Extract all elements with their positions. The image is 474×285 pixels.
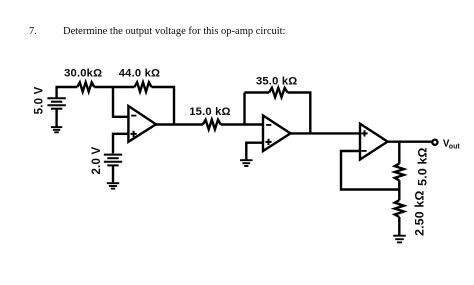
- svg-text:44.0 kΩ: 44.0 kΩ: [119, 68, 160, 80]
- svg-text:5.0 V: 5.0 V: [33, 86, 45, 114]
- wire U2 output to U3 non-inverting input: [291, 132, 361, 134]
- U2 non-inverting pin plus sign: [265, 139, 271, 145]
- op-amp U2 triangle: [263, 116, 291, 152]
- battery V2 2.0V plates: [104, 155, 122, 166]
- op-amp U1 triangle: [128, 106, 156, 142]
- resistor R6 2.50k zigzag: [395, 200, 404, 217]
- wire U1 non-inverting input to battery V2: [113, 134, 128, 154]
- wire R3 to U2 inverting input through node B: [221, 123, 263, 125]
- svg-text:2.50 kΩ: 2.50 kΩ: [413, 190, 427, 235]
- wire node A down to U1 inverting input: [113, 87, 128, 117]
- U3 non-inverting pin plus sign: [361, 130, 367, 136]
- battery V1 5.0V plates: [47, 98, 65, 109]
- wire battery V1 bottom to ground: [55, 109, 57, 127]
- resistor R4 35.0k zigzag: [269, 88, 287, 97]
- resistor R3 15.0k zigzag: [203, 120, 221, 130]
- wire node B up to 35k rail: [243, 93, 245, 125]
- U3 inverting pin minus sign: [361, 150, 366, 152]
- wire R1 to R2 through node A: [94, 86, 134, 88]
- svg-text:Determine the output voltage f: Determine the output voltage for this op…: [63, 26, 286, 37]
- wire R5 to R6 through tap node: [398, 180, 400, 200]
- Vout open terminal circle: [432, 140, 437, 145]
- wire R2 right to feedback corner and drop to op-amp U1 output: [152, 87, 175, 125]
- wire 35k rail left segment: [245, 91, 270, 93]
- wire U3 output node down to R5: [398, 142, 400, 164]
- svg-text:7.: 7.: [29, 26, 37, 37]
- ground G1 under battery V1: [51, 127, 62, 132]
- ground G4 under R6: [393, 236, 406, 243]
- wire U1 output to R3: [156, 123, 203, 125]
- wire U3 inverting input feedback loop to divider tap: [341, 151, 399, 190]
- resistor R1 30.0k zigzag: [77, 82, 94, 91]
- resistor R5 5.0k zigzag: [395, 164, 404, 181]
- svg-text:out: out: [449, 144, 461, 151]
- ground G2 under battery V2: [107, 183, 119, 188]
- wire R4 right segment and drop to U2 output: [288, 93, 311, 134]
- op-amp U3 triangle: [360, 124, 388, 160]
- svg-text:5.0 kΩ: 5.0 kΩ: [415, 147, 429, 185]
- wire battery V1 top to node A (top rail left): [57, 87, 78, 99]
- wire R6 to ground: [398, 217, 400, 235]
- resistor R2 44.0k zigzag: [135, 82, 152, 91]
- U1 non-inverting pin plus sign: [131, 131, 137, 137]
- svg-text:2.0 V: 2.0 V: [91, 147, 103, 175]
- svg-text:30.0kΩ: 30.0kΩ: [64, 68, 102, 80]
- U1 inverting pin minus sign: [131, 115, 136, 117]
- ground G3 at U2 non-inverting input: [240, 160, 253, 166]
- wire U2 non-inverting input to ground: [246, 143, 263, 160]
- U2 inverting pin minus sign: [266, 124, 271, 126]
- svg-text:15.0 kΩ: 15.0 kΩ: [189, 106, 230, 118]
- wire U3 output to Vout terminal: [388, 140, 432, 142]
- svg-text:35.0 kΩ: 35.0 kΩ: [256, 76, 297, 88]
- wire battery V2 bottom to ground: [112, 165, 114, 182]
